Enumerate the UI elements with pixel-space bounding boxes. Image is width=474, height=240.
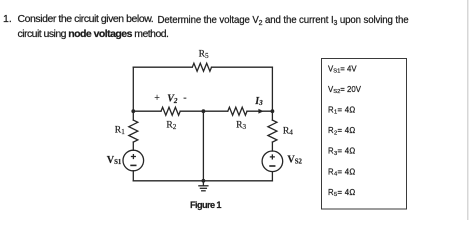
svg-text:VS2= 20V: VS2= 20V	[328, 85, 362, 95]
svg-text:R1: R1	[115, 125, 125, 136]
wire right vertical node B to R4	[271, 111, 273, 120]
wire right vertical top (top corner to node B)	[271, 67, 273, 111]
resistor R2	[161, 107, 180, 115]
svg-text:R5= 4Ω: R5= 4Ω	[328, 188, 356, 198]
wire VS2 to bottom rail	[271, 172, 273, 181]
ground junction dot	[202, 179, 206, 183]
wire center vertical (node C down to ground junction)	[202, 111, 204, 181]
problem text line 1a	[18, 13, 154, 25]
VS1 plus sign	[131, 154, 136, 159]
wire bottom rail	[133, 180, 272, 182]
problem number	[3, 13, 12, 25]
source VS1 circle	[123, 150, 144, 171]
wire R1 to VS1	[132, 142, 134, 150]
svg-text:R2: R2	[166, 120, 176, 131]
resistor R1	[129, 120, 138, 142]
resistor R5	[192, 63, 211, 71]
wire VS1 to bottom rail	[132, 171, 134, 181]
svg-text:+: +	[154, 93, 160, 104]
VS2 plus sign	[270, 154, 275, 159]
source VS2 circle	[262, 151, 283, 172]
figure caption	[190, 200, 221, 210]
svg-text:VS2: VS2	[287, 155, 302, 166]
ground bar 1	[199, 185, 208, 187]
wire left vertical node A to R1	[132, 111, 134, 120]
svg-text:V2: V2	[167, 94, 178, 105]
svg-text:I3: I3	[254, 96, 263, 107]
wire middle right with I3 arrow shaft (R3 to node B)	[247, 110, 272, 112]
svg-text:R5: R5	[199, 49, 209, 60]
svg-text:R3= 4Ω: R3= 4Ω	[328, 147, 356, 157]
problem text line 2	[18, 28, 169, 40]
node B junction dot	[271, 109, 275, 113]
VS2 minus sign	[269, 165, 275, 167]
svg-text:R2= 4Ω: R2= 4Ω	[328, 126, 356, 136]
wire middle left (node A to R2)	[133, 110, 161, 112]
ground bar 2	[200, 187, 206, 189]
svg-text:VS1= 4V: VS1= 4V	[328, 64, 357, 74]
VS1 minus sign	[130, 164, 136, 166]
node C junction dot	[202, 109, 206, 113]
values box	[322, 59, 407, 210]
wire middle center (R2 to R3)	[180, 110, 228, 112]
svg-text:-: -	[183, 92, 186, 103]
svg-text:R4: R4	[283, 125, 293, 136]
wire R4 to VS2	[271, 142, 273, 151]
wire top rail left of R5	[133, 66, 192, 68]
node A junction dot	[131, 109, 135, 113]
I3 arrowhead	[258, 109, 263, 114]
resistor R3	[228, 107, 247, 115]
wire top-left vertical (node A to top corner)	[132, 67, 134, 111]
wire top rail right of R5	[212, 66, 273, 68]
svg-text:R3: R3	[236, 120, 246, 131]
svg-text:R1= 4Ω: R1= 4Ω	[328, 106, 356, 116]
ground bar 3	[202, 190, 205, 192]
ground stub	[202, 181, 204, 186]
problem text line 1b	[158, 15, 409, 26]
page scan edge line	[467, 0, 469, 220]
svg-text:R4= 4Ω: R4= 4Ω	[328, 167, 356, 177]
resistor R4	[268, 120, 277, 142]
svg-text:VS1: VS1	[107, 155, 122, 166]
